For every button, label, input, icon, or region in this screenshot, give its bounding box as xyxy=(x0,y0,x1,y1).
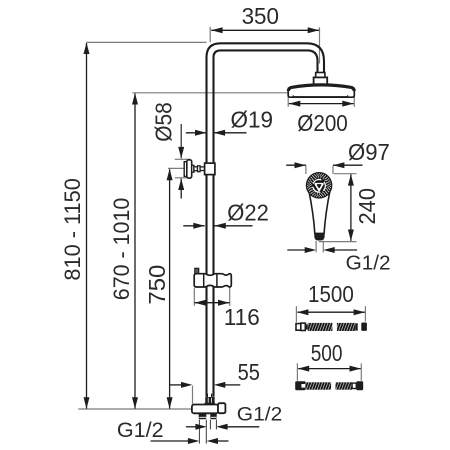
extension line stub left-left xyxy=(198,420,200,444)
dimension 55 lines xyxy=(170,384,182,386)
handset logo inner mark xyxy=(317,185,320,188)
handset head face xyxy=(306,172,333,199)
extension line 350 left xyxy=(209,27,211,43)
svg-text:Ø200: Ø200 xyxy=(297,110,348,136)
extension line stub right-right xyxy=(215,420,217,430)
slider bracket body xyxy=(194,274,231,287)
extension line bracket right (116) xyxy=(229,287,231,306)
extension line bracket left (116) xyxy=(193,288,195,306)
hose 1500 corrugated section A xyxy=(308,323,333,331)
extension line hand shower right xyxy=(332,166,334,174)
extension line hose500 left xyxy=(296,363,298,381)
svg-text:116: 116 xyxy=(224,304,260,330)
rain head collar upper xyxy=(316,73,325,78)
handset logo ring xyxy=(313,180,326,193)
svg-text:Ø58: Ø58 xyxy=(150,102,176,142)
dimension 750 line xyxy=(169,169,171,408)
handset logo triangle xyxy=(315,184,322,190)
diverter block on column xyxy=(205,163,215,175)
svg-text:G1/2: G1/2 xyxy=(117,417,164,442)
rain head collar lower xyxy=(314,77,328,84)
extension line hand shower top (240) xyxy=(334,173,357,175)
reference line wall bottom datum xyxy=(78,408,202,410)
svg-text:55: 55 xyxy=(238,359,260,385)
hose 500 corrugated section A xyxy=(306,382,331,389)
extension line diverter knob top xyxy=(175,158,191,160)
dimension O19 lines xyxy=(186,132,207,134)
slider bracket divider left xyxy=(203,274,205,287)
dimension O22 lines xyxy=(183,225,204,227)
valve body xyxy=(192,405,218,414)
extension line 350 right xyxy=(319,27,321,63)
dimension 240 line xyxy=(350,174,352,241)
extension line valve left (55) xyxy=(192,386,194,405)
diverter stem xyxy=(192,165,194,172)
dimension 810-1150 line xyxy=(86,43,88,409)
diverter knob plate xyxy=(184,162,187,177)
extension line diverter centre (750 datum) xyxy=(168,167,190,169)
valve stub left xyxy=(199,413,207,420)
slider bracket divider right xyxy=(216,274,218,287)
extension line hose1500 left xyxy=(295,306,297,322)
hose 1500 corrugated section B xyxy=(337,323,355,331)
extension line handset tip right xyxy=(322,241,324,253)
dimension 500 line xyxy=(298,368,361,370)
svg-text:670 - 1010: 670 - 1010 xyxy=(109,198,134,301)
column thread neck xyxy=(206,394,208,398)
extension line hand shower left xyxy=(305,166,307,174)
svg-text:350: 350 xyxy=(242,3,279,29)
svg-text:G1/2: G1/2 xyxy=(346,253,391,275)
hose 500 right fitting xyxy=(356,381,363,390)
handset tip nut xyxy=(314,233,324,240)
handset handle xyxy=(309,190,331,234)
knurled nut xyxy=(205,397,214,403)
extension line handset tip left xyxy=(315,241,317,253)
hose 1500 right fitting xyxy=(361,323,367,331)
rain shower head body xyxy=(288,85,354,97)
svg-text:500: 500 xyxy=(311,340,343,366)
slider bracket top pin xyxy=(195,268,199,274)
svg-text:Ø22: Ø22 xyxy=(227,200,268,226)
shower column tube inner outline xyxy=(214,50,318,396)
dimension outlet G1/2 lines xyxy=(186,426,197,428)
extension line top of column (810-1150 upper datum) xyxy=(86,41,206,43)
extension line hose500 right xyxy=(360,363,362,381)
dimension 350 line xyxy=(211,29,319,31)
hose 500 left fitting xyxy=(295,381,305,390)
dimension 1500 line xyxy=(297,311,364,313)
handset spray nozzles xyxy=(330,184,331,186)
svg-text:Ø97: Ø97 xyxy=(348,139,390,165)
valve neck xyxy=(205,403,214,405)
dimension bottom stub G1/2 lines xyxy=(151,440,189,442)
extension line stub right-left xyxy=(209,420,211,430)
hose 1500 left fitting xyxy=(296,324,301,331)
svg-text:Ø19: Ø19 xyxy=(231,106,274,132)
extension line rain head right xyxy=(353,90,355,107)
dimension handset tip G1/2 lines xyxy=(287,249,306,251)
rain head top thick edge xyxy=(288,85,354,91)
valve outlet G1/2 xyxy=(218,403,225,413)
extension line hand shower bottom (240) xyxy=(319,241,357,243)
dimension O200 line xyxy=(289,103,354,105)
dimension 670-1010 line xyxy=(134,94,136,409)
extension line bottom of rain head (670-1010 upper datum) xyxy=(132,92,288,94)
hose 500 right collar xyxy=(352,383,356,388)
extension line hose1500 right xyxy=(364,306,366,321)
svg-text:750: 750 xyxy=(144,265,170,305)
svg-text:810 - 1150: 810 - 1150 xyxy=(60,178,85,281)
svg-text:G1/2: G1/2 xyxy=(237,403,283,425)
hose 500 corrugated section B xyxy=(336,382,353,389)
diverter knob disc xyxy=(187,160,192,178)
extension line diverter knob bottom xyxy=(175,177,191,179)
hose 1500 right collar xyxy=(355,323,358,330)
dimension O58 lines xyxy=(180,124,182,158)
svg-text:1500: 1500 xyxy=(308,281,354,307)
rain head face rim xyxy=(293,96,349,98)
extension line stub left-right xyxy=(205,420,207,444)
svg-text:240: 240 xyxy=(354,188,380,225)
shower column tube outer outline xyxy=(207,43,325,397)
dimension 116 line xyxy=(195,302,230,304)
extension line rain head left xyxy=(287,88,289,107)
valve stub right xyxy=(210,413,216,420)
dimension O97 lines xyxy=(286,164,306,166)
